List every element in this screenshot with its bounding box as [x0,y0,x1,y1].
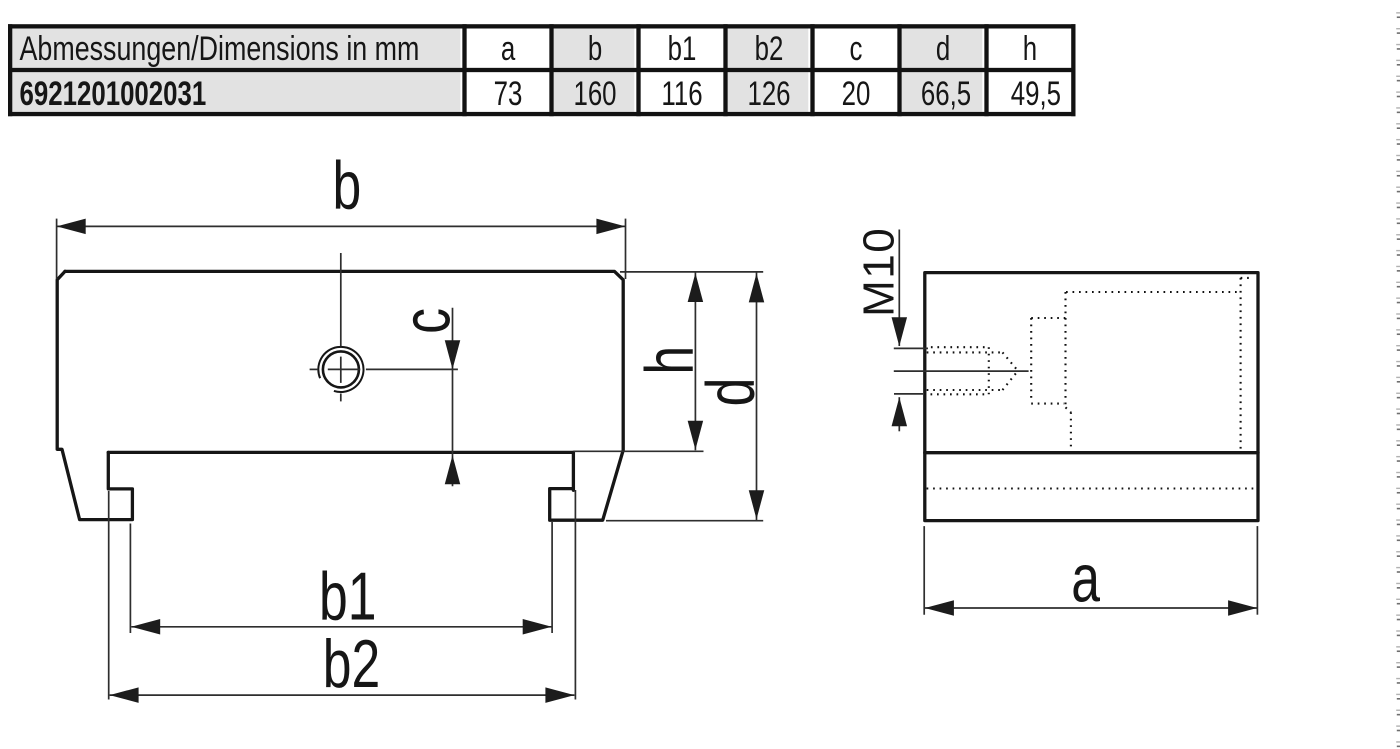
svg-text:b: b [333,147,362,224]
svg-text:116: 116 [661,76,702,113]
svg-text:126: 126 [747,76,790,113]
dimension d: label (rotated) [692,378,769,407]
front view: tapped hole - outer thread arc [318,347,363,392]
side view: hidden groove centerline (dotted, lower band) [927,487,1257,489]
dimension d: dimension line with arrows [756,272,758,520]
front view: part outline (clamping jaw profile, thick) [57,271,623,520]
dimension M10: extension lines [894,348,928,394]
svg-text:b: b [588,31,602,68]
front view: tapped hole - inner circle [323,351,359,387]
side view: hidden slot recess rectangle (dotted) [1031,318,1065,404]
svg-text:c: c [388,308,465,334]
dimension b2: dimension line with arrows [110,694,575,696]
dimension b: dimension line with arrows [57,225,626,227]
svg-text:160: 160 [573,76,616,113]
dimension h: label (rotated) [631,346,708,375]
table: dimension values 73 160 116 126 20 66,5 49,5 [494,76,1061,113]
table: gray fill of columns b, b2, d [554,29,983,112]
svg-text:b2: b2 [323,625,380,702]
dimension b: extension lines [57,219,626,279]
svg-text:M10: M10 [854,227,903,317]
dimension a: dimension line with arrows [925,607,1257,609]
table: black grid lines [8,24,1076,116]
front view: groove step edge line [108,451,573,454]
table: column header letters a b b1 b2 c d h [501,31,1037,68]
dimension c: label (rotated) [388,308,465,334]
front view: hole horizontal centerline [310,368,458,370]
svg-text:b2: b2 [755,31,784,68]
svg-text:c: c [850,31,863,68]
dimension a: extension lines [924,526,1257,615]
svg-text:b1: b1 [319,557,376,634]
svg-text:73: 73 [494,76,523,113]
svg-text:66,5: 66,5 [921,76,971,113]
dimension h: top extension line (shared with d) [620,271,763,273]
svg-text:Abmessungen/Dimensions in mm: Abmessungen/Dimensions in mm [20,30,420,68]
svg-text:b1: b1 [668,31,697,68]
dimension c: dimension line [452,308,454,487]
dimension c: arrows [445,340,461,484]
side view: horizontal step split line [925,451,1258,454]
svg-text:a: a [501,31,516,68]
side view: hidden tapped hole - thread lines (dotted) [927,347,1018,394]
side view: hidden drill cone tip (dotted) [1003,352,1018,370]
svg-text:20: 20 [842,76,871,113]
side view: hole axis line [894,370,1029,372]
dimension b2: extension lines [109,490,576,700]
dimension b: label [333,147,362,224]
dimension M10: dimension line with arrows [898,230,900,432]
table: gray fill of header column (both rows) [12,29,460,112]
dimension a: label [1071,540,1100,617]
dimension b1: label [319,557,376,634]
side view: outer rectangle (thick) [925,273,1258,521]
svg-text:a: a [1071,540,1100,617]
dimension b1: dimension line with arrows [131,626,552,628]
dimension h: bottom extension line [574,450,704,452]
front view: hole vertical centerline [340,253,342,401]
side view: hidden large pocket outline (dotted) [1066,278,1254,451]
table: row 1 label "Abmessungen/Dimensions in mm" [20,30,420,68]
svg-text:h: h [1023,31,1037,68]
dimension M10: label (rotated) [854,227,903,317]
page edge: perforation tick marks along right margin [1396,12,1400,747]
dimension b2: label [323,625,380,702]
svg-text:49,5: 49,5 [1011,76,1061,113]
dimension h: dimension line with arrows [694,272,696,450]
dimension b1: extension lines [130,522,552,633]
svg-text:d: d [936,31,950,68]
svg-text:h: h [631,346,708,375]
svg-text:6921201002031: 6921201002031 [20,76,207,113]
table: row 2 article number 6921201002031 [20,76,207,113]
svg-text:d: d [692,378,769,407]
dimension d: bottom extension line [606,520,763,522]
